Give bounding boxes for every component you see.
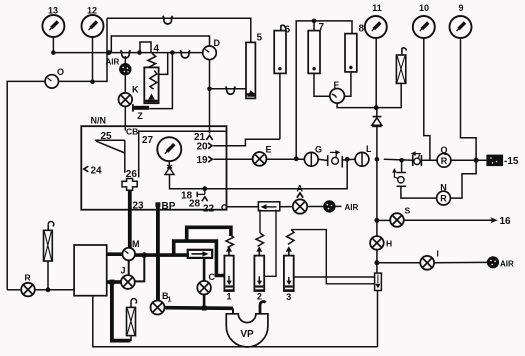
wire switch to N: [401, 186, 437, 198]
svg-text:5: 5: [257, 33, 263, 44]
wire main line L to Q branch: [384, 159, 413, 160]
svg-text:N/N: N/N: [91, 116, 107, 126]
wire regulator pilot stub: [159, 53, 168, 75]
wire 27 loop to main line: [170, 159, 348, 188]
wire A to muffler: [307, 206, 324, 208]
port 18: [181, 189, 205, 202]
vent filter J: [127, 299, 137, 341]
regulator 4 body: [144, 67, 158, 103]
wire staircase2 thick: [174, 241, 225, 275]
outlet 15 block: [486, 155, 518, 167]
svg-text:C: C: [209, 272, 216, 282]
svg-text:G: G: [315, 145, 322, 155]
restrictor check: [375, 273, 382, 290]
gauge 11: [365, 3, 387, 38]
svg-text:BP: BP: [162, 201, 176, 212]
wire BP thick: [156, 205, 160, 301]
wire J riser: [135, 255, 145, 281]
vent filter left: [44, 221, 54, 289]
wire I to muffler: [434, 261, 487, 263]
svg-text:Z: Z: [137, 111, 143, 121]
wire cyl7 bottom to F: [314, 73, 330, 96]
svg-text:7: 7: [319, 22, 325, 33]
muffler AIR mid: [323, 200, 335, 212]
svg-text:23: 23: [133, 201, 145, 212]
gauge 27: [142, 135, 181, 161]
wire Q/N lower branch: [401, 160, 403, 172]
cylinder 2 arrow: [256, 246, 262, 251]
node L-line / vertical: [375, 157, 380, 162]
wire switch to L: [342, 158, 355, 161]
svg-text:R: R: [25, 273, 31, 283]
relay N: [437, 183, 451, 206]
wire H to restrictor: [376, 250, 378, 273]
valve O: [45, 67, 64, 88]
connector cup bus-D: [180, 50, 190, 58]
connector cup top line: [163, 16, 173, 24]
wire M to J: [128, 260, 130, 275]
svg-text:S: S: [405, 206, 411, 216]
cylinder 3 arrow: [286, 246, 292, 251]
svg-text:AIR: AIR: [345, 203, 359, 212]
svg-text:13: 13: [48, 6, 58, 16]
svg-text:K: K: [132, 85, 139, 95]
node F-loop / gauge11: [374, 105, 379, 110]
regulator 4 bracket: [140, 42, 151, 53]
wire N to node 15: [450, 160, 476, 198]
wire M to vent box thick: [135, 253, 189, 257]
wire S line: [377, 219, 390, 221]
control box N/N: [81, 126, 226, 210]
svg-text:L: L: [366, 144, 372, 154]
svg-text:2: 2: [257, 291, 262, 301]
wire gauge9 stem: [461, 38, 477, 160]
wire cyl6 bottom to port20 line: [279, 73, 281, 139]
wire F bottom loop: [337, 83, 401, 107]
svg-text:28: 28: [189, 199, 201, 210]
svg-text:16: 16: [500, 216, 512, 227]
wire D stem down: [209, 60, 211, 134]
wire manifold to M thick: [107, 252, 123, 256]
svg-text:4: 4: [154, 44, 160, 55]
svg-text:1: 1: [168, 297, 172, 304]
node I branch: [374, 260, 379, 265]
svg-text:M: M: [132, 239, 140, 249]
wire S to 16: [404, 219, 492, 221]
pressure switch G (arrow right): [328, 150, 343, 168]
wire switch to Q: [421, 159, 437, 161]
cylinder 3 spring riser: [291, 230, 374, 284]
gauge M: [122, 239, 139, 260]
wire O-line right: [59, 18, 108, 81]
svg-text:19: 19: [197, 155, 209, 166]
svg-text:AIR: AIR: [500, 260, 514, 269]
node J riser: [142, 252, 148, 258]
valve I: [420, 249, 439, 270]
wire port19 to E: [213, 158, 252, 160]
connector cup cyl5 line: [226, 86, 236, 94]
valve 26: [122, 169, 137, 191]
cylinder 1 spring: [226, 235, 234, 247]
svg-text:11: 11: [372, 3, 382, 13]
wire manifold to bottom loop: [93, 296, 378, 347]
muffler AIR exhaust right: [487, 256, 499, 268]
svg-text:VP: VP: [240, 329, 254, 340]
flowmeter 8: [345, 24, 365, 72]
port 16 arrow: [490, 217, 497, 223]
wire gauge13 stem: [52, 37, 54, 53]
svg-text:12: 12: [87, 6, 97, 16]
wire D top line y36: [111, 36, 209, 53]
svg-text:8: 8: [359, 24, 365, 35]
flowmeter 6: [274, 25, 290, 74]
manifold box: [74, 245, 107, 296]
muffler AIR intake: [119, 56, 131, 75]
wire vent box to A: [280, 206, 293, 208]
svg-text:6: 6: [285, 25, 291, 36]
gauge 12: [82, 6, 104, 38]
svg-text:O: O: [57, 67, 64, 77]
port 22: [203, 204, 227, 215]
wire B1 to C junction thick: [165, 306, 234, 310]
check valve under gauge11: [372, 108, 382, 127]
wire C to B1-VP line: [203, 295, 206, 309]
svg-text:1: 1: [226, 292, 231, 302]
regulator 4 top spring: [148, 53, 156, 67]
gauge 13: [42, 6, 64, 38]
vacuum pump VP: [226, 314, 268, 347]
svg-text:22: 22: [203, 204, 215, 215]
svg-text:N: N: [440, 183, 447, 193]
wire gauge12 stem: [92, 37, 94, 82]
port 21 arrow: [194, 132, 213, 143]
node C drain junction: [202, 306, 207, 311]
wire restrictor to bottom loop: [377, 291, 379, 347]
node bus-left: [51, 50, 56, 55]
svg-text:E: E: [266, 145, 272, 155]
vent filter right: [396, 48, 406, 84]
wire D to cylinder 5: [210, 88, 247, 90]
node bus comp4: [137, 50, 142, 55]
svg-text:D: D: [214, 38, 221, 48]
gauge 10: [413, 3, 435, 38]
wire main bus y53: [53, 52, 202, 54]
flowmeter 7: [308, 21, 324, 74]
wire port22 to vent box: [227, 206, 259, 208]
svg-text:10: 10: [419, 3, 429, 13]
cylinder 1 arrow: [226, 246, 232, 251]
node bus Z-branch: [170, 50, 175, 55]
valve J: [121, 266, 135, 289]
node O-line / gauge12: [90, 79, 95, 84]
wire vertical main H: [376, 159, 378, 236]
restrictor flag 25: [95, 131, 125, 173]
port 20: [197, 142, 213, 153]
svg-text:F: F: [334, 80, 340, 90]
cylinder 2 spring: [256, 233, 264, 246]
node cyl7 top: [312, 19, 317, 24]
valve R: [21, 273, 35, 297]
inner panel: [139, 131, 226, 177]
valve B1: [151, 291, 172, 315]
one-way vent box: [258, 202, 279, 211]
valve H: [370, 236, 392, 250]
node x296: [294, 156, 299, 161]
meter L: [355, 144, 372, 166]
port 24: [84, 166, 102, 177]
wire gauge11 stem: [375, 38, 377, 108]
check valve 27: [165, 168, 174, 175]
wire cyl2 right port: [264, 210, 276, 277]
svg-text:-15: -15: [504, 156, 519, 167]
cylinder 2: [254, 252, 264, 302]
wire check valve to L-line: [376, 127, 378, 160]
flow indicator 5: [246, 33, 263, 99]
svg-text:H: H: [386, 239, 392, 249]
valve S: [390, 206, 410, 227]
port A arrow: [297, 193, 303, 198]
meter G: [304, 145, 322, 167]
svg-text:R: R: [440, 194, 447, 204]
wire left column to R: [7, 289, 21, 291]
wire muffler stub: [335, 205, 341, 207]
wire top line y18: [107, 18, 251, 42]
port 28 arrow: [189, 197, 208, 210]
node D-cyl5: [207, 87, 212, 92]
cylinder 1: [224, 252, 233, 302]
wire valvebox to C: [203, 258, 206, 281]
wire Q to node: [451, 159, 487, 161]
svg-text:24: 24: [91, 166, 103, 177]
port BP: [155, 201, 175, 212]
svg-text:CB: CB: [126, 127, 138, 137]
svg-text:3: 3: [286, 292, 291, 302]
wire port20 to cyl6: [213, 139, 280, 146]
svg-text:Q: Q: [440, 145, 447, 155]
wire to VP: [232, 308, 234, 314]
node filter branch: [46, 287, 51, 292]
wire O-line left: [7, 81, 45, 289]
port 19: [197, 155, 213, 166]
valve F: [330, 80, 345, 103]
pressure switch upper (arrow left): [411, 151, 422, 166]
wire BP to B1 thick: [156, 255, 160, 301]
wire 23 thick: [128, 190, 132, 248]
wire E to G: [266, 158, 304, 160]
plug Z bar: [132, 104, 149, 121]
wire drain thick: [112, 282, 131, 341]
wire top line y21: [296, 21, 352, 159]
valve D: [203, 38, 221, 60]
gauge 9: [450, 3, 472, 38]
svg-text:AIR: AIR: [106, 58, 120, 67]
wire G to switch: [318, 159, 328, 160]
wire muffler to K: [124, 75, 126, 93]
wire gauge10 stem: [424, 38, 430, 160]
wire Z loop: [149, 53, 172, 109]
one-way valve box main: [188, 250, 213, 258]
node Q/N branch: [399, 158, 404, 163]
connector cup AIR: [121, 50, 131, 58]
cylinder 3 spring: [287, 230, 295, 245]
wire cyl2 bottom hook to VP: [260, 302, 266, 315]
relay Q: [437, 145, 451, 167]
node 15: [474, 158, 479, 163]
node 27-loop branch: [345, 157, 350, 162]
node J drain: [110, 280, 115, 285]
wire staircase1 thick: [187, 227, 231, 241]
valve A: [293, 199, 307, 213]
wire R to manifold: [35, 289, 74, 291]
pressure switch lower (arrow up): [392, 168, 406, 186]
valve E: [253, 145, 272, 166]
wire cyl8 bottom to F: [344, 72, 351, 96]
svg-text:A: A: [297, 184, 304, 194]
svg-text:27: 27: [142, 135, 154, 146]
node bus x107: [106, 50, 111, 55]
cylinder 3: [284, 252, 294, 302]
valve C: [197, 272, 215, 295]
wire manifold to J thick: [107, 280, 121, 284]
node S branch: [374, 218, 379, 223]
cylinder 2 spring riser: [259, 210, 261, 233]
node port18: [202, 186, 207, 191]
wire I line: [377, 262, 420, 264]
svg-text:20: 20: [197, 142, 209, 153]
wire cyl3 right port to restrictor: [294, 276, 375, 278]
svg-text:I: I: [437, 249, 439, 259]
wire K to CB port: [124, 106, 126, 130]
wire 27 stem: [168, 161, 170, 167]
svg-text:9: 9: [458, 3, 463, 13]
svg-text:R: R: [441, 156, 448, 166]
svg-text:J: J: [121, 266, 126, 276]
valve K: [119, 85, 140, 107]
